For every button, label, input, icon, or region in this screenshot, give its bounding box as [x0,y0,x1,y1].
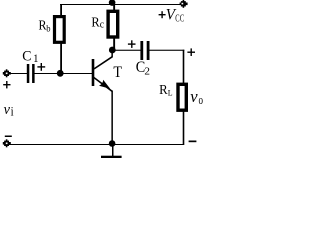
svg-text:v: v [190,87,198,106]
svg-text:R: R [159,81,168,97]
svg-text:R: R [91,14,100,30]
svg-text:2: 2 [144,66,150,78]
svg-text:c: c [100,19,105,31]
svg-text:o: o [199,93,204,107]
svg-text:C: C [22,49,31,64]
svg-text:v: v [4,102,11,118]
svg-text:1: 1 [33,53,38,65]
svg-text:b: b [46,23,51,34]
svg-text:C: C [180,12,184,24]
svg-text:C: C [175,12,179,24]
svg-text:T: T [113,64,122,81]
svg-text:L: L [168,88,173,97]
